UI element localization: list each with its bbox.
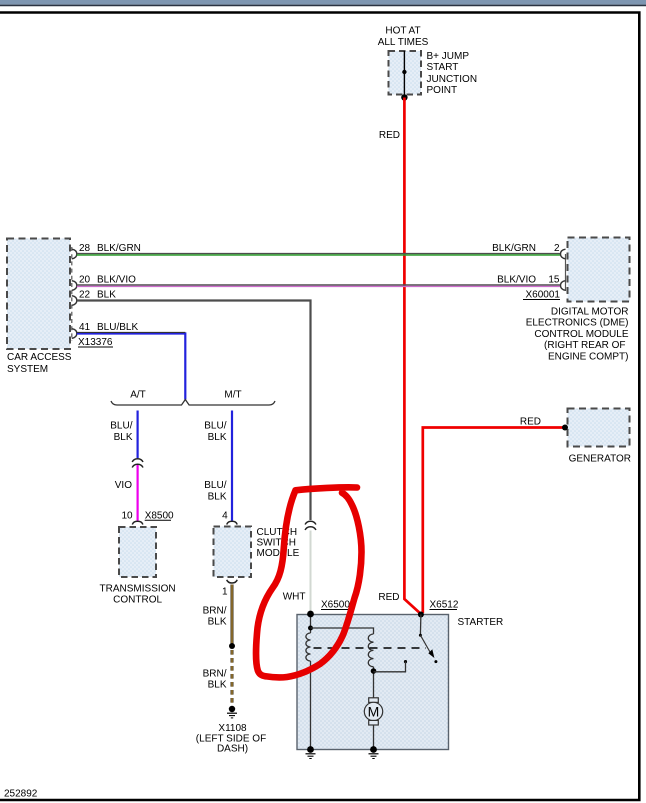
svg-text:VIO: VIO [115, 480, 132, 491]
svg-text:SYSTEM: SYSTEM [7, 364, 48, 375]
svg-text:M: M [368, 704, 380, 720]
svg-text:RED: RED [378, 592, 399, 603]
svg-text:BLK: BLK [208, 432, 227, 443]
svg-text:ALL TIMES: ALL TIMES [378, 37, 429, 48]
svg-text:1: 1 [222, 587, 228, 598]
svg-text:BLK: BLK [208, 617, 227, 628]
svg-text:BRN/: BRN/ [203, 606, 227, 617]
svg-text:BLK/VIO: BLK/VIO [497, 275, 536, 286]
svg-text:X60001: X60001 [526, 290, 561, 301]
svg-text:X6500: X6500 [321, 600, 350, 611]
svg-text:252892: 252892 [4, 789, 38, 800]
svg-text:M/T: M/T [224, 390, 241, 401]
svg-text:2: 2 [554, 243, 560, 254]
svg-text:41: 41 [79, 322, 91, 333]
svg-text:CONTROL: CONTROL [113, 595, 162, 606]
svg-text:ELECTRONICS (DME): ELECTRONICS (DME) [526, 318, 629, 329]
svg-text:BLK: BLK [114, 432, 133, 443]
svg-text:20: 20 [79, 275, 91, 286]
svg-text:BLK/VIO: BLK/VIO [97, 275, 136, 286]
svg-text:BLU/: BLU/ [204, 480, 226, 491]
svg-text:STARTER: STARTER [458, 617, 504, 628]
svg-text:BLK: BLK [97, 290, 116, 301]
svg-text:(RIGHT REAR OF: (RIGHT REAR OF [544, 340, 625, 351]
svg-text:DIGITAL MOTOR: DIGITAL MOTOR [551, 307, 629, 318]
svg-text:SWITCH: SWITCH [257, 538, 296, 549]
svg-text:CONTROL MODULE: CONTROL MODULE [534, 329, 628, 340]
svg-text:X6512: X6512 [430, 600, 459, 611]
svg-text:28: 28 [79, 243, 91, 254]
svg-text:POINT: POINT [427, 85, 458, 96]
svg-text:BLU/: BLU/ [110, 421, 132, 432]
svg-text:BLK: BLK [208, 680, 227, 691]
svg-text:B+ JUMP: B+ JUMP [427, 51, 470, 62]
svg-text:BLK/GRN: BLK/GRN [97, 243, 141, 254]
svg-text:WHT: WHT [283, 592, 306, 603]
svg-text:DASH): DASH) [217, 744, 248, 755]
svg-text:RED: RED [379, 130, 400, 141]
svg-text:RED: RED [520, 417, 541, 428]
svg-text:HOT AT: HOT AT [385, 26, 420, 37]
svg-text:CAR ACCESS: CAR ACCESS [7, 352, 72, 363]
svg-text:X1108: X1108 [218, 723, 247, 734]
svg-text:BLU/: BLU/ [204, 421, 226, 432]
svg-text:GENERATOR: GENERATOR [569, 454, 631, 465]
svg-text:JUNCTION: JUNCTION [427, 74, 478, 85]
svg-text:A/T: A/T [130, 390, 146, 401]
svg-text:BLK: BLK [208, 492, 227, 503]
svg-text:MODULE: MODULE [257, 548, 300, 559]
svg-text:10: 10 [121, 511, 133, 522]
svg-text:CLUTCH: CLUTCH [257, 527, 298, 538]
svg-text:15: 15 [548, 275, 560, 286]
svg-text:BLU/BLK: BLU/BLK [97, 322, 138, 333]
svg-text:ENGINE COMPT): ENGINE COMPT) [548, 351, 629, 362]
svg-text:4: 4 [222, 511, 228, 522]
svg-text:X13376: X13376 [78, 337, 113, 348]
svg-text:22: 22 [79, 290, 91, 301]
svg-text:START: START [427, 62, 459, 73]
svg-text:TRANSMISSION: TRANSMISSION [100, 584, 176, 595]
svg-text:BLK/GRN: BLK/GRN [492, 243, 536, 254]
svg-text:BRN/: BRN/ [203, 669, 227, 680]
